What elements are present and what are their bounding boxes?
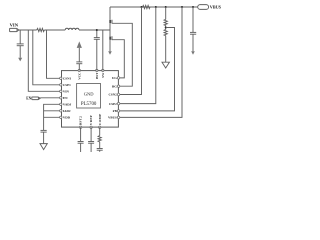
resistor R4 (FB bottom): [164, 29, 167, 62]
svg-text:VADJ: VADJ: [63, 103, 72, 107]
wire SW pin: [102, 30, 104, 71]
pin labels bottom (vertical): [79, 113, 102, 125]
wire CSP1: [33, 30, 61, 85]
capacitor C7 (VREF): [88, 127, 94, 152]
wire CSN1: [47, 30, 61, 78]
wire VIN rail y=30: [19, 29, 37, 31]
node FB divider: [165, 27, 167, 29]
inductor L1: [65, 28, 79, 30]
pin labels top (vertical): [77, 72, 105, 80]
connector J1 VIN: [10, 28, 19, 31]
wire: [44, 29, 65, 31]
capacitor C1 (input): [17, 30, 24, 58]
svg-text:GND: GND: [84, 92, 94, 97]
ground (arrow, FET chain): [108, 51, 112, 55]
capacitor C6 (BST2): [78, 127, 84, 152]
pin pads top: [78, 69, 104, 71]
transistor Q1: [109, 20, 112, 37]
svg-text:VBUS: VBUS: [108, 116, 117, 120]
connector J3 VBUS: [198, 5, 209, 10]
wire VIN pin: [28, 30, 60, 91]
svg-text:VIN: VIN: [63, 90, 70, 94]
wire VADJ/IADJ/VDD common: [44, 104, 61, 130]
svg-text:VCC: VCC: [77, 72, 81, 80]
svg-text:BG: BG: [112, 84, 117, 88]
capacitor C3 (VCC bypass): [76, 48, 82, 71]
node rail junction VBUS pin: [181, 6, 183, 8]
capacitor C5 (output): [190, 7, 196, 51]
wire CSN2: [120, 7, 156, 104]
pin labels left: [63, 77, 72, 120]
svg-text:CSP2: CSP2: [109, 102, 117, 106]
node SW junction: [96, 29, 98, 31]
wire FB: [120, 28, 175, 111]
svg-text:BST: BST: [95, 72, 99, 79]
svg-text:BST2: BST2: [79, 116, 83, 125]
pin pads bottom: [79, 126, 101, 128]
capacitor C4 (bootstrap BST): [94, 30, 100, 71]
node rail junction output cap: [192, 6, 194, 8]
pin pads right: [117, 77, 119, 119]
node rail junction CSP2: [141, 6, 143, 8]
svg-text:COMP: COMP: [98, 113, 102, 125]
op-amp U1 PL5700 outer body: [62, 71, 119, 128]
capacitor C2 (VDD): [41, 130, 47, 143]
power arrow (VIN supply, up): [77, 41, 82, 48]
wire CSP2: [120, 7, 142, 95]
U1 inner pad box: [77, 84, 101, 109]
resistor R2 (output sense): [143, 5, 151, 8]
svg-text:CSP1: CSP1: [63, 83, 71, 87]
ground (arrow, output cap): [191, 51, 195, 55]
wire EN: [40, 97, 60, 99]
wire Q2 gate to UG: [112, 40, 124, 78]
svg-text:VBUS: VBUS: [210, 5, 222, 10]
resistor R5 (COMP): [98, 127, 101, 148]
svg-text:CSN1: CSN1: [63, 77, 72, 81]
svg-text:EN: EN: [63, 96, 68, 100]
node rail junction divider: [165, 6, 167, 8]
wire top rail VBUS y=7: [110, 6, 198, 8]
pin pads left: [60, 77, 62, 118]
wire VBUS pin: [120, 7, 182, 117]
ground (open triangle, VDD cap): [40, 144, 47, 150]
connector J2 EN: [32, 97, 40, 100]
svg-text:CSN2: CSN2: [109, 93, 118, 97]
resistor R1 (input sense): [37, 28, 45, 31]
ground (open triangle, divider): [162, 62, 169, 68]
svg-text:SW: SW: [101, 72, 105, 78]
node rail junction CSN2: [155, 6, 157, 8]
svg-text:EN: EN: [26, 96, 31, 100]
pin labels right: [108, 76, 118, 120]
svg-text:VIN: VIN: [10, 23, 19, 28]
svg-text:IADJ: IADJ: [63, 109, 71, 113]
wire Q1 gate to BG: [112, 23, 132, 86]
ground (arrow, input cap): [18, 58, 22, 62]
svg-text:VREF: VREF: [89, 115, 93, 126]
svg-text:VDD: VDD: [63, 116, 71, 120]
transistor Q2: [109, 36, 112, 51]
svg-text:UG: UG: [112, 76, 117, 80]
capacitor C8 (COMP): [97, 149, 103, 152]
wire SW node: [79, 29, 110, 31]
svg-text:PL5700: PL5700: [81, 102, 97, 107]
resistor R3 (FB top): [164, 7, 167, 29]
wire rail corner down: [109, 7, 111, 20]
